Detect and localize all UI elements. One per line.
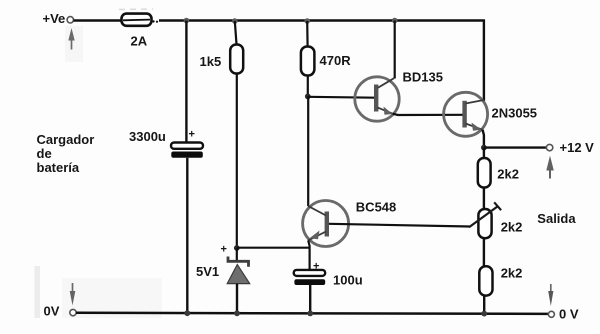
svg-text:+12 V: +12 V <box>560 140 595 155</box>
wire: zener anode to bottom rail <box>236 284 238 314</box>
resistor R1 1k5 <box>230 45 243 74</box>
wire: 470R bottom lead to base node <box>307 76 309 97</box>
capacitor C2 100u <box>294 270 326 285</box>
svg-text:2k2: 2k2 <box>497 167 519 182</box>
trimmer P1 2k2 <box>469 202 501 238</box>
node: zener / 1k5 junction <box>234 245 240 251</box>
svg-text:3300u: 3300u <box>129 129 166 144</box>
node: 470R / BD135 base / BC548 collector <box>305 94 311 100</box>
wire: BC548 collector from 470R node <box>307 96 309 206</box>
terminal 0V (left) <box>70 309 76 315</box>
svg-text:2k2: 2k2 <box>501 220 523 235</box>
junction bottom rail / 100u <box>307 311 313 317</box>
wire: zener node to BC548 emitter node <box>237 247 310 249</box>
capacitor C1 3300u <box>171 129 203 158</box>
svg-text:0 V: 0 V <box>559 307 579 322</box>
svg-text:2k2: 2k2 <box>501 265 523 280</box>
wire: node to BD135 base <box>308 96 375 99</box>
wire: bottom rail <box>76 313 549 314</box>
junction on top rail at 1k5 branch <box>232 18 238 24</box>
wire: BC548 base to trimmer wiper <box>329 224 470 227</box>
wire: 2N3055 collector from top rail corner <box>483 20 485 102</box>
node: +12V output <box>481 145 487 151</box>
svg-text:2N3055: 2N3055 <box>492 105 538 120</box>
svg-text:100u: 100u <box>333 272 363 287</box>
wire: +12V node into R3 <box>483 148 485 159</box>
svg-text:5V1: 5V1 <box>196 264 219 279</box>
transistor Q1 BD135 <box>355 77 399 121</box>
svg-text:de: de <box>37 146 52 161</box>
scan artifact: faint dashes above fuse (decorative) <box>119 8 153 11</box>
svg-text:+: + <box>221 244 227 256</box>
resistor R3 2k2 <box>478 158 491 188</box>
zener diode D1 5V1 <box>227 257 250 284</box>
transistor Q3 BC548 <box>303 201 349 247</box>
svg-text:2A: 2A <box>131 33 148 48</box>
terminal +12V <box>546 144 552 150</box>
wire: top rail, fuse to right corner <box>159 19 485 21</box>
wire: trimmer to R4 <box>483 238 485 266</box>
resistor R4 2k2 <box>479 266 492 295</box>
arrow up at +12V <box>546 156 554 179</box>
wire: R4 to bottom rail <box>483 296 485 314</box>
terminal 0 V (right) <box>548 311 554 317</box>
resistor R2 470R <box>301 47 315 76</box>
svg-text:BC548: BC548 <box>356 199 396 214</box>
svg-text:BD135: BD135 <box>403 69 443 84</box>
wire: 3300u negative lead to bottom rail <box>186 158 188 314</box>
wire: top rail, terminal to fuse <box>74 19 123 21</box>
wire: 470R top lead <box>306 21 309 47</box>
arrow up at +Ve input <box>68 28 74 50</box>
scan shading patches (decorative) <box>35 26 163 318</box>
junction bottom rail / zener <box>234 310 240 316</box>
wire: +12V node to output terminal <box>484 146 547 148</box>
wire: 100u to bottom rail <box>309 285 311 314</box>
wire: node to zener cathode <box>236 248 238 262</box>
svg-text:0V: 0V <box>44 304 60 319</box>
wire: 2N3055 emitter down to +12V node <box>483 130 484 148</box>
junction on top rail at 470R branch <box>304 18 310 24</box>
label Cargador de bateria <box>37 132 95 175</box>
wire: 1k5 top lead <box>235 21 237 46</box>
arrow down at 0V left <box>70 283 76 306</box>
wire: R3 to trimmer <box>483 188 485 210</box>
transistor Q2 2N3055 <box>444 92 488 136</box>
junction bottom rail / R4 <box>481 311 487 317</box>
wire: BD135 collector from top rail <box>394 21 396 79</box>
svg-text:+Ve: +Ve <box>43 11 66 26</box>
arrow down at 0 V right <box>548 284 553 306</box>
junction on top rail at BD135 collector <box>392 18 398 24</box>
junction bottom rail / 3300u <box>184 310 190 316</box>
terminal +Ve <box>67 17 73 23</box>
junction on top rail at 3300u branch <box>184 18 190 24</box>
svg-text:batería: batería <box>37 160 80 175</box>
svg-text:470R: 470R <box>320 53 352 68</box>
svg-text:Salida: Salida <box>537 211 576 226</box>
svg-text:+: + <box>189 129 195 141</box>
wire: BD135 emitter to 2N3055 base <box>393 114 463 115</box>
wire: BC548 emitter down to 100u node <box>308 240 309 270</box>
svg-text:Cargador: Cargador <box>37 132 95 147</box>
wire: 1k5 bottom lead down to zener node <box>236 74 238 249</box>
wire: 3300u positive lead from top rail <box>185 21 187 143</box>
fuse F1 <box>122 14 159 26</box>
svg-text:1k5: 1k5 <box>200 54 222 69</box>
